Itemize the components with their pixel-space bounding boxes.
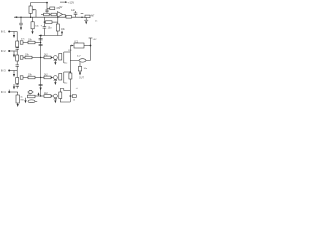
stub above dot IN4	[8, 90, 10, 92]
ground arrow M2	[54, 79, 56, 82]
small box ch3	[20, 76, 23, 79]
junction dot bus r4	[40, 95, 41, 96]
svg-text:9V: 9V	[60, 7, 63, 9]
resistor R10	[28, 41, 35, 44]
feeder M3 bottom	[60, 99, 70, 103]
resistor R11 vertical	[16, 55, 19, 61]
resistor R22 vertical	[56, 24, 59, 31]
capacitor C4 plates	[16, 47, 20, 49]
transistor circle M3	[54, 94, 58, 98]
capacitor C13 on bus	[75, 14, 77, 17]
svg-text:OUT: OUT	[79, 78, 84, 80]
wire cluster row	[41, 14, 44, 16]
wire opamp down	[90, 46, 92, 61]
wire IN2	[9, 50, 17, 52]
cap oval bottom	[28, 100, 35, 103]
wire IN4	[9, 91, 18, 93]
svg-text:10k: 10k	[61, 29, 66, 31]
wire pr1	[23, 42, 28, 44]
resistor R15 tall	[17, 92, 19, 95]
junction dot C	[46, 2, 48, 4]
capacitor C3 polarized	[43, 22, 45, 27]
transistor circle M1	[54, 56, 58, 60]
svg-text:+: +	[41, 25, 43, 28]
resistor R13 vertical	[16, 78, 19, 84]
junction dot F	[40, 42, 41, 43]
feeder M3 top	[60, 89, 64, 93]
stub oval right	[35, 100, 37, 102]
arrow M2	[50, 77, 53, 79]
wire pr4	[35, 95, 44, 97]
svg-text:IC1: IC1	[75, 40, 79, 43]
small box ch1	[20, 41, 23, 44]
node dot IN1	[8, 31, 10, 33]
svg-text:1n: 1n	[95, 20, 97, 22]
junction dot G	[70, 95, 72, 97]
vertical line x58	[57, 17, 59, 24]
capacitor C6 plates	[16, 84, 20, 86]
ground stub T	[85, 17, 87, 20]
resistor R8	[45, 21, 52, 24]
svg-text:IN 4: IN 4	[1, 90, 6, 94]
junction dot rail	[70, 71, 71, 72]
svg-text:1k: 1k	[73, 100, 76, 102]
small box ch2	[20, 56, 23, 59]
resistor R16	[28, 95, 36, 98]
resistor R19	[70, 95, 72, 97]
svg-text:10u: 10u	[64, 63, 68, 65]
ground arrow T	[85, 21, 87, 24]
wire IN3	[9, 70, 17, 72]
resistor R3	[44, 13, 50, 16]
svg-text:10u: 10u	[84, 68, 88, 70]
junction dot B	[30, 16, 32, 18]
resistor M3	[44, 95, 51, 98]
summing bus vertical	[40, 36, 42, 97]
ground stub ch3	[13, 71, 15, 74]
supply arrow	[60, 1, 66, 3]
resistor M2	[44, 76, 51, 79]
potentiometer R1	[29, 6, 32, 13]
tick on stub D	[81, 13, 84, 15]
junction dot E	[44, 21, 45, 22]
chain below wire	[79, 62, 81, 66]
arrow up pr4	[38, 94, 40, 96]
wire U2 out	[84, 45, 91, 47]
wire IN1	[9, 31, 17, 33]
svg-text:+L: +L	[76, 88, 79, 90]
arrow M1	[50, 57, 53, 59]
junction dot J	[57, 17, 58, 18]
node dot IN3	[8, 70, 10, 72]
svg-text:4u7: 4u7	[77, 56, 81, 58]
svg-text:5W: 5W	[20, 99, 24, 101]
op-amp U1	[57, 12, 62, 18]
svg-text:4k7: 4k7	[91, 15, 95, 17]
svg-text:IN 1: IN 1	[1, 30, 6, 34]
wire rail to amp	[70, 46, 72, 53]
resistor on rail	[69, 73, 72, 79]
svg-text:10u: 10u	[48, 27, 53, 29]
bus wire left	[14, 16, 90, 18]
stub with up arrow	[61, 33, 63, 35]
junction dot bus r2	[40, 57, 41, 58]
capacitor plates on C line	[45, 9, 48, 11]
arrowhead left end	[39, 35, 42, 37]
feeder M1	[63, 52, 65, 63]
supply terminal bar	[89, 37, 93, 39]
amp block U2	[74, 43, 84, 48]
node dot IN4	[8, 91, 10, 93]
wire R8 right	[52, 21, 58, 23]
box M1	[59, 54, 62, 61]
svg-text:10k: 10k	[35, 26, 39, 28]
wire pr2	[23, 57, 25, 59]
resistor R14	[28, 76, 35, 79]
wire supply down	[90, 38, 92, 46]
svg-text:IN 2: IN 2	[1, 49, 6, 53]
ground stub ch1	[13, 32, 15, 35]
resistor R6	[85, 15, 90, 18]
svg-text:1uF: 1uF	[71, 10, 76, 12]
svg-text:+12V: +12V	[68, 1, 74, 5]
resistor M1	[44, 56, 51, 59]
cap oval C11	[79, 59, 86, 62]
capacitor C7 circle	[29, 90, 32, 93]
resistor R2	[50, 7, 55, 10]
ground stub ch2	[13, 51, 15, 54]
wire node C down	[46, 3, 48, 14]
junction dot D	[81, 16, 83, 18]
rail vertical right	[69, 52, 71, 102]
capacitor C14 on bus	[39, 38, 43, 40]
box M3	[59, 92, 62, 99]
wire R2 left lead	[47, 7, 50, 9]
resistor R12	[25, 56, 32, 59]
wiper arrow R1	[34, 9, 36, 11]
junction dot bus top	[40, 35, 41, 36]
wire R3-R4	[49, 14, 51, 16]
output wire lower	[70, 59, 90, 61]
ground arrow M3	[54, 98, 56, 100]
resistor R4	[51, 13, 56, 16]
svg-text:1M: 1M	[68, 50, 71, 52]
capacitor C5 plates	[16, 64, 20, 66]
capacitor C16 on bus	[39, 83, 43, 85]
ground arrow M1	[54, 59, 56, 62]
wire pot bottom	[30, 13, 32, 17]
node dot IN2	[8, 50, 10, 52]
svg-text:10u: 10u	[64, 83, 68, 85]
stub arrow below R16	[25, 98, 27, 100]
arrow M3	[50, 95, 53, 97]
resistor R9 vertical	[16, 41, 19, 47]
capacitor C15 on bus	[39, 43, 43, 45]
wire bus drop	[43, 17, 45, 22]
resistor R7 chain	[32, 17, 34, 22]
box M2	[59, 74, 62, 81]
capacitor C2 chain	[20, 17, 22, 23]
wire U1 out	[63, 14, 66, 17]
junction dot A	[20, 16, 22, 18]
resistor R5 on bus	[66, 16, 72, 19]
arrow on bus low	[40, 88, 42, 91]
wire pot top	[31, 3, 47, 6]
wire wiper down	[35, 10, 37, 18]
svg-text:1k: 1k	[20, 97, 23, 99]
mid horizontal wire	[39, 35, 62, 37]
svg-text:+9V: +9V	[93, 39, 97, 41]
junction dot H	[90, 45, 92, 47]
svg-text:IN 3: IN 3	[1, 69, 6, 73]
arrow on bus left end	[14, 16, 17, 18]
transistor circle M2	[54, 76, 58, 80]
feeder M2	[63, 72, 65, 83]
wire pr3	[23, 77, 28, 79]
junction dot bus r3	[40, 77, 41, 78]
svg-text:47n: 47n	[21, 39, 25, 41]
